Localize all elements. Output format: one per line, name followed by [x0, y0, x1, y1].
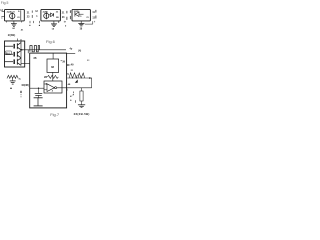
- svg-text:(4): (4): [78, 50, 81, 53]
- antenna squiggle source: [7, 75, 18, 78]
- svg-text:23: 23: [56, 11, 59, 13]
- pin stub left bottom of U1: [2, 16, 5, 18]
- svg-text:1: 1: [1, 18, 3, 20]
- svg-text:Fig.6: Fig.6: [46, 39, 56, 44]
- bottom corner tick U1 right: [21, 21, 23, 23]
- resistor rail wire: [67, 77, 90, 79]
- svg-text:3B: 3B: [33, 57, 36, 60]
- transistor Q2: [5, 51, 22, 58]
- wire block38 to resistor: [52, 72, 54, 81]
- svg-text:5: 5: [80, 16, 82, 18]
- resistor R2 zigzag: [78, 73, 85, 78]
- svg-text:4: 4: [52, 90, 54, 93]
- oscillator outer box FIG.7: [30, 53, 67, 108]
- diode D1 inside U2: [49, 14, 51, 16]
- node label 39: [61, 60, 62, 62]
- op-amp U5: [47, 84, 55, 92]
- wire to crystal: [30, 87, 44, 89]
- transistor array box Q1-Q3: [5, 41, 25, 67]
- annotation arrow to block 38: [68, 64, 71, 66]
- top edge extension wire: [67, 52, 76, 54]
- pin tick column: [31, 11, 33, 13]
- svg-text:49: 49: [71, 64, 74, 67]
- svg-text:2B: 2B: [44, 76, 47, 79]
- tick and dot left of resistor: [72, 92, 74, 94]
- node B junction dot: [38, 88, 39, 89]
- svg-text:2(2B): 2(2B): [8, 33, 16, 37]
- svg-text:38: 38: [51, 65, 54, 69]
- crystal X1 under C1: [38, 95, 40, 97]
- svg-text:38: 38: [80, 28, 83, 30]
- pin ticks right margin: [95, 10, 97, 13]
- tick under U2: [32, 21, 34, 23]
- tick under U2 right corner: [58, 21, 60, 23]
- ground under squiggle: [12, 78, 14, 80]
- annotation arrow dashed: [20, 92, 22, 98]
- svg-text:39: 39: [62, 60, 65, 63]
- svg-text:21: 21: [66, 74, 69, 76]
- input stub -: [44, 89, 47, 91]
- transistor Q3: [5, 58, 22, 65]
- junction dot: [89, 77, 91, 79]
- svg-text:41: 41: [21, 28, 24, 31]
- svg-text:21: 21: [62, 12, 65, 14]
- pin tick column left of U3: [69, 10, 71, 13]
- svg-text:13: 13: [92, 17, 95, 19]
- bottom tick U3 right: [94, 21, 96, 22]
- resistor R1 zigzag: [69, 73, 77, 78]
- svg-text:11: 11: [92, 12, 95, 14]
- block 38: [47, 59, 59, 72]
- svg-text:7: 7: [65, 21, 67, 23]
- svg-text:23: 23: [62, 17, 65, 19]
- block U2 internal lamp symbol: [44, 13, 49, 18]
- svg-text:21: 21: [71, 70, 74, 72]
- ground under U2: [53, 21, 55, 24]
- part label PL2: [5, 51, 12, 55]
- resistor R3 vertical: [81, 88, 83, 91]
- common rail wire: [20, 39, 22, 66]
- block U1 internal lamp symbol: [10, 13, 15, 18]
- ground under U3: [80, 21, 82, 24]
- transistor Q1: [5, 43, 22, 50]
- block U3 box: [72, 9, 90, 21]
- ground under U1: [13, 21, 15, 24]
- wire from U3 pin to ground rail: [85, 21, 93, 24]
- pin stub left top of U1: [2, 11, 5, 13]
- svg-text:1: 1: [36, 16, 38, 18]
- svg-text:23: 23: [27, 16, 30, 18]
- clock waveform symbol: [30, 46, 40, 52]
- svg-text:2B: 2B: [56, 17, 59, 19]
- ground G5: [78, 104, 85, 106]
- resistor R38 zigzag: [48, 75, 59, 78]
- node dot: [10, 88, 12, 90]
- bottom corner tick U1 left: [6, 21, 8, 23]
- top stub node 41: [17, 39, 19, 42]
- svg-text:23: 23: [17, 17, 20, 19]
- wire corner right: [90, 78, 92, 88]
- diode D2 inside U3: [74, 12, 76, 17]
- svg-text:2i: 2i: [18, 11, 20, 13]
- tick under U2 mid: [39, 21, 41, 23]
- svg-text:4u: 4u: [19, 78, 22, 81]
- block U1 box: [5, 9, 25, 21]
- tick under U2 left corner: [29, 21, 31, 23]
- svg-text:47: 47: [70, 95, 73, 98]
- wire down to oscillator box: [27, 50, 29, 53]
- svg-text:4y: 4y: [70, 48, 73, 51]
- svg-text:2(2A) 23: 2(2A) 23: [7, 11, 16, 14]
- svg-text:23: 23: [87, 60, 90, 62]
- capacitor C1: [38, 88, 40, 93]
- svg-text:24: 24: [12, 27, 15, 30]
- svg-text:22(2B.5B): 22(2B.5B): [74, 112, 90, 116]
- svg-text:12: 12: [35, 11, 38, 13]
- svg-text:21: 21: [86, 17, 89, 19]
- svg-text:4O(4B): 4O(4B): [21, 84, 29, 87]
- tick below output at box edge: [66, 89, 68, 91]
- block U1 internal divider: [20, 10, 22, 20]
- pin tick column right of U2: [66, 11, 68, 14]
- output wire: [57, 87, 92, 89]
- annotation arrowhead at box edge: [75, 80, 78, 83]
- svg-text:Fig.5: Fig.5: [1, 1, 9, 5]
- comparator box: [44, 81, 62, 93]
- exit wire lower: [21, 62, 30, 64]
- svg-text:14: 14: [52, 27, 55, 30]
- node A junction dot: [46, 83, 47, 84]
- svg-text:4B: 4B: [68, 83, 71, 86]
- bottom tick U2 right: [63, 21, 65, 23]
- output wire of FIG.6: [21, 49, 66, 51]
- block U2 box: [41, 9, 61, 21]
- wire feed to block 38: [52, 53, 54, 59]
- svg-text:21: 21: [27, 12, 30, 14]
- input stub +: [44, 83, 47, 85]
- svg-text:Fig.7: Fig.7: [50, 112, 60, 117]
